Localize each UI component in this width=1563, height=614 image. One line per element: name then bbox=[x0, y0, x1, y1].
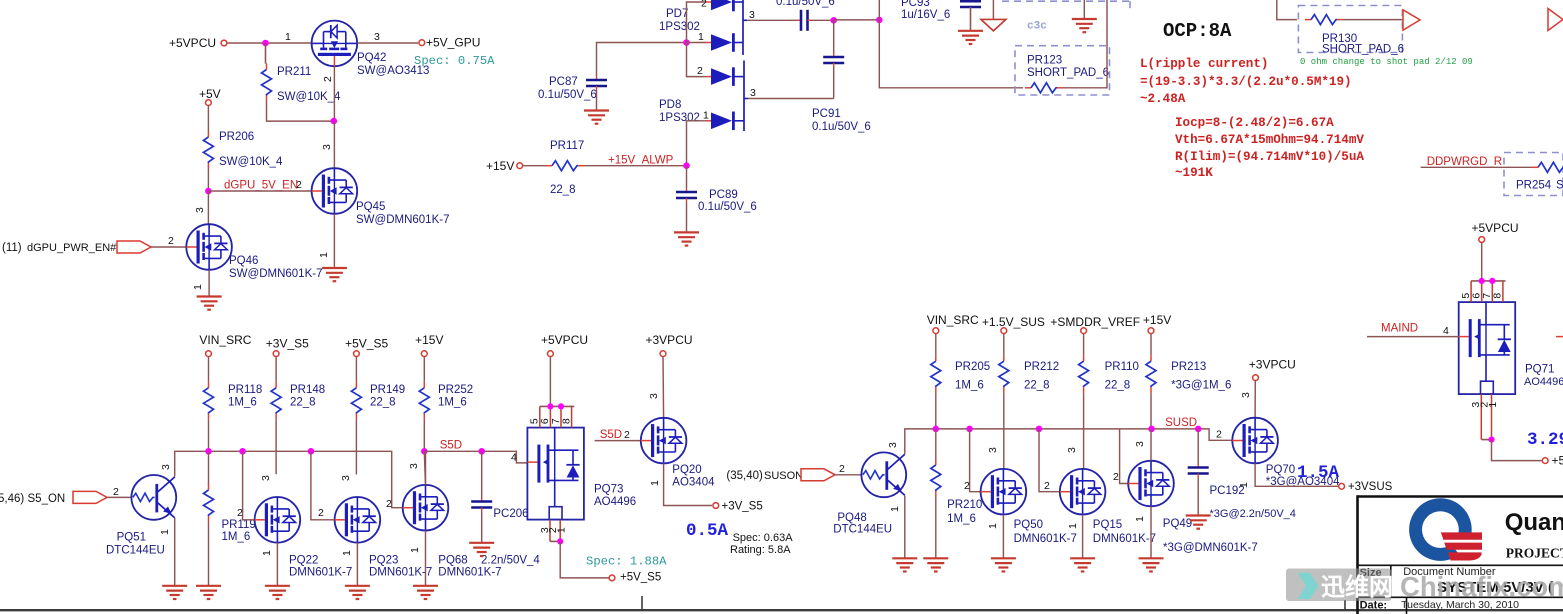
ground under PQ49 bbox=[1139, 557, 1164, 559]
border zone tick 2 bbox=[1344, 600, 1346, 610]
junction PR213/PQ49 drain bbox=[1150, 393, 1152, 429]
svg-text:+3VSUS: +3VSUS bbox=[1348, 481, 1393, 493]
svg-text:迅维网: 迅维网 bbox=[1321, 573, 1393, 601]
svg-text:PQ15: PQ15 bbox=[1093, 519, 1122, 531]
svg-text:PQ71: PQ71 bbox=[1525, 364, 1554, 376]
title block frame bbox=[1358, 495, 1563, 614]
ground under PR210 bbox=[923, 557, 948, 559]
power port +3VSUS (output) bbox=[1339, 483, 1345, 489]
wire PC91 bottom to PD8 pin3 rail bbox=[833, 67, 835, 98]
svg-text:3: 3 bbox=[1066, 447, 1078, 453]
svg-text:PC93: PC93 bbox=[901, 0, 930, 9]
svg-text:PQ50: PQ50 bbox=[1014, 519, 1043, 531]
wire PC206 drop bbox=[481, 451, 483, 497]
svg-text:PD7: PD7 bbox=[666, 8, 688, 20]
svg-text:*3G@1M_6: *3G@1M_6 bbox=[1171, 380, 1231, 392]
svg-text:SW@10K_4: SW@10K_4 bbox=[219, 156, 283, 168]
wire PC89 to ground bbox=[686, 202, 688, 232]
svg-text:0.5A: 0.5A bbox=[686, 521, 729, 541]
power port +5V_GPU bbox=[419, 40, 425, 46]
svg-text:Date:: Date: bbox=[1360, 600, 1388, 612]
svg-text:1: 1 bbox=[192, 284, 204, 290]
wire PR130 to off-page arrow bbox=[1343, 19, 1403, 21]
wire PQ46 source to ground bbox=[208, 270, 210, 297]
wire PQ48 emitter to ground bbox=[904, 496, 906, 559]
junction PR205/PR210 bbox=[935, 393, 937, 429]
ground under PQ68 bbox=[413, 585, 438, 587]
wire PQ22 source to ground bbox=[276, 543, 278, 586]
ground under PC87 bbox=[584, 109, 609, 111]
wire gate drop PQ15 bbox=[1039, 429, 1060, 492]
svg-text:1PS302: 1PS302 bbox=[659, 112, 700, 124]
wire dGPU_5V_EN node down to PQ46 drain bbox=[207, 191, 209, 224]
svg-text:PQ48: PQ48 bbox=[837, 512, 866, 524]
wire PQ49 source to ground bbox=[1150, 506, 1152, 558]
wire node to PC87 and PD7 bbox=[597, 43, 687, 77]
svg-text:2.2n/50V_4: 2.2n/50V_4 bbox=[481, 555, 540, 567]
svg-text:SUSON: SUSON bbox=[764, 470, 803, 482]
wire node B down to PR123 rail bbox=[879, 20, 1023, 88]
ground under PC93 bbox=[958, 30, 983, 32]
svg-text:22_8: 22_8 bbox=[1105, 380, 1131, 392]
wire +5V_GPU node down to PD8 pin 2 bbox=[687, 43, 707, 77]
wire PC192 drop bbox=[1197, 429, 1199, 464]
svg-text:DTC144EU: DTC144EU bbox=[106, 545, 165, 557]
diode PD7 lower (pin 1) bbox=[687, 42, 707, 44]
svg-text:Rating: 5.8A: Rating: 5.8A bbox=[730, 544, 791, 556]
svg-text:PROJECT: PROJECT bbox=[1506, 546, 1563, 561]
wire node B up (off sheet) bbox=[878, 0, 880, 20]
svg-text:+3VPCU: +3VPCU bbox=[646, 333, 693, 347]
svg-text:3: 3 bbox=[194, 207, 206, 213]
svg-text:PR118: PR118 bbox=[228, 384, 262, 396]
svg-text:PR212: PR212 bbox=[1024, 361, 1059, 373]
wire PD8 pin1 from +15V_ALWP node bbox=[687, 121, 707, 166]
svg-text:1u/16V_6: 1u/16V_6 bbox=[901, 9, 950, 21]
svg-text:AO4496: AO4496 bbox=[1524, 376, 1563, 388]
transistor PQ22 (DMN601K-7) bbox=[255, 497, 301, 543]
svg-text:22_8: 22_8 bbox=[550, 184, 576, 196]
transistor PQ42 (P-MOSFET SW@AO3413) bbox=[312, 21, 358, 67]
svg-text:2: 2 bbox=[624, 429, 630, 441]
svg-text:MAIND: MAIND bbox=[1381, 323, 1418, 335]
resistor PR148 (22_8) bbox=[275, 357, 277, 382]
diode PD8 upper (pin 2) bbox=[706, 76, 711, 78]
dashed box PR254 bbox=[1504, 153, 1563, 196]
wire dGPU_5V_EN node to PQ45 gate bbox=[208, 190, 311, 192]
wire gate drop PQ50 bbox=[970, 429, 981, 492]
transistor PQ46 (SW@DMN601K-7) bbox=[186, 224, 232, 270]
stub at right edge (MAIND row) bbox=[1556, 336, 1563, 338]
watermark box bbox=[1286, 569, 1392, 602]
capacitor PC192 (*3G@2.2n/50V_4) bbox=[1197, 464, 1199, 468]
svg-text:1M_6: 1M_6 bbox=[438, 397, 467, 409]
svg-text:+15V: +15V bbox=[1143, 313, 1171, 327]
junction PQ15 gate bbox=[1036, 426, 1043, 433]
svg-text:1M_6: 1M_6 bbox=[947, 513, 976, 525]
svg-text:22_8: 22_8 bbox=[370, 397, 396, 409]
svg-text:~191K: ~191K bbox=[1175, 166, 1213, 180]
svg-text:SW@10K_4: SW@10K_4 bbox=[277, 91, 341, 103]
off-page arrow at sheet top right bbox=[1548, 9, 1563, 31]
svg-text:SHORT_PAD_6: SHORT_PAD_6 bbox=[1027, 67, 1109, 79]
svg-text:1PS302: 1PS302 bbox=[659, 21, 700, 33]
wire PR252 to S5D junction bbox=[423, 420, 425, 452]
junction PQ50 gate bbox=[966, 426, 973, 433]
capacitor PC89 (0.1u/50V_6) bbox=[686, 188, 688, 192]
ground under PQ46 bbox=[197, 295, 222, 297]
svg-text:DMN601K-7: DMN601K-7 bbox=[289, 567, 352, 579]
svg-text:1: 1 bbox=[703, 110, 709, 122]
wire gate drop PQ23 bbox=[311, 451, 335, 520]
svg-text:PR110: PR110 bbox=[1105, 361, 1139, 373]
resistor PR252 (1M_6) bbox=[423, 357, 425, 382]
svg-text:1: 1 bbox=[987, 523, 999, 529]
transistor PQ73 (AO4496 block) bbox=[527, 403, 584, 544]
transistor PQ48 (DTC144EU) bbox=[861, 452, 906, 497]
wire PQ51 collector to bus bbox=[174, 475, 176, 477]
resistor PR110 (22_8) bbox=[1083, 334, 1085, 356]
gate bus wire (S5_ON driver) bbox=[175, 451, 403, 507]
wire flag to PQ51 base bbox=[107, 496, 131, 498]
off-page arrow (right) bbox=[1403, 10, 1420, 30]
svg-text:1: 1 bbox=[649, 480, 661, 486]
svg-text:8: 8 bbox=[560, 418, 572, 424]
dashed box PR123 bbox=[1015, 46, 1110, 95]
svg-text:0 ohm change to shot pad 2/12: 0 ohm change to shot pad 2/12 09 bbox=[1300, 57, 1473, 67]
svg-text:PQ23: PQ23 bbox=[369, 555, 398, 567]
svg-text:VIN_SRC: VIN_SRC bbox=[927, 313, 979, 327]
wire PR123 to corner up bbox=[1063, 0, 1107, 88]
svg-text:1: 1 bbox=[341, 550, 353, 556]
svg-text:1: 1 bbox=[159, 529, 171, 535]
svg-text:PQ42: PQ42 bbox=[357, 52, 386, 64]
svg-text:+15V: +15V bbox=[415, 333, 443, 347]
junction PC192 bbox=[1195, 426, 1202, 433]
wire +15V to PR117 bbox=[523, 165, 546, 167]
svg-text:2: 2 bbox=[1216, 429, 1222, 441]
svg-text:PQ45: PQ45 bbox=[356, 201, 385, 213]
svg-text:2: 2 bbox=[168, 235, 174, 247]
svg-text:3: 3 bbox=[160, 464, 172, 470]
svg-text:+3VPCU: +3VPCU bbox=[1249, 358, 1296, 372]
svg-text:2: 2 bbox=[1044, 480, 1050, 492]
svg-text:3: 3 bbox=[1240, 392, 1252, 398]
transistor PQ15 (DMN601K-7) bbox=[1060, 469, 1106, 515]
svg-text:SHORT_PAD_6: SHORT_PAD_6 bbox=[1322, 44, 1404, 56]
svg-text:2: 2 bbox=[1113, 471, 1119, 483]
ground triangle bbox=[981, 19, 1006, 31]
svg-text:22_8: 22_8 bbox=[1024, 380, 1050, 392]
resistor PR149 (22_8) bbox=[355, 357, 357, 382]
svg-text:1: 1 bbox=[1067, 523, 1079, 529]
svg-text:dGPU_5V_EN: dGPU_5V_EN bbox=[224, 180, 298, 192]
svg-text:1.5A: 1.5A bbox=[1297, 463, 1340, 483]
svg-text:2: 2 bbox=[697, 65, 703, 77]
input flag S5_ON bbox=[73, 491, 107, 503]
svg-text:+5VPCU: +5VPCU bbox=[1472, 221, 1519, 235]
svg-text:3: 3 bbox=[750, 87, 756, 99]
svg-text:1: 1 bbox=[409, 547, 421, 553]
svg-text:Quanta: Quanta bbox=[1505, 509, 1563, 536]
ground under PQ45 bbox=[322, 267, 347, 269]
wire PQ68 source to ground bbox=[425, 531, 427, 586]
svg-text:SUSD: SUSD bbox=[1165, 417, 1197, 429]
wire PQ42 pin3 to +5V_GPU bbox=[357, 42, 418, 44]
svg-text:+3V_S5: +3V_S5 bbox=[266, 337, 309, 351]
wire PQ15 source to ground bbox=[1082, 515, 1084, 559]
capacitor 0.1u/50V_6 (series, top rail) bbox=[797, 19, 801, 21]
svg-text:PR123: PR123 bbox=[1027, 55, 1062, 67]
svg-text:0.1u/50V_6: 0.1u/50V_6 bbox=[698, 201, 757, 213]
resistor PR205 (1M_6) bbox=[935, 334, 937, 356]
svg-text:SW@DMN601K-7: SW@DMN601K-7 bbox=[356, 214, 449, 226]
svg-text:1M_6: 1M_6 bbox=[222, 531, 251, 543]
wire PQ49 drain to SUSD bbox=[1150, 429, 1152, 461]
svg-text:+5V: +5V bbox=[199, 87, 221, 101]
wire PR210 to ground bbox=[935, 497, 937, 558]
svg-text:1: 1 bbox=[1238, 482, 1250, 488]
svg-text:2: 2 bbox=[296, 179, 302, 191]
wire PC87 to ground bbox=[596, 90, 598, 111]
SUSD gate bus wire bbox=[905, 429, 1233, 451]
svg-text:=(19-3.3)*3.3/(2.2u*0.5M*19): =(19-3.3)*3.3/(2.2u*0.5M*19) bbox=[1140, 75, 1352, 89]
resistor PR117 (22_8) bbox=[546, 165, 552, 167]
svg-text:PQ73: PQ73 bbox=[594, 484, 623, 496]
svg-text:PQ70: PQ70 bbox=[1266, 464, 1295, 476]
wire gate drop PQ22 bbox=[243, 451, 255, 520]
wire PQ71 bottom pins to +5VSUS bbox=[1492, 440, 1542, 461]
svg-text:+1.5V_SUS: +1.5V_SUS bbox=[982, 315, 1045, 329]
svg-text:PD8: PD8 bbox=[659, 99, 681, 111]
svg-text:1: 1 bbox=[1487, 402, 1499, 408]
svg-text:+5V_GPU: +5V_GPU bbox=[426, 36, 480, 50]
svg-text:2: 2 bbox=[386, 498, 392, 510]
wire PC206 to ground bbox=[481, 512, 483, 543]
svg-text:4: 4 bbox=[1443, 325, 1449, 337]
svg-text:(11): (11) bbox=[2, 242, 22, 254]
resistor PR130 (SHORT_PAD_6) bbox=[1305, 19, 1311, 21]
svg-text:+5V_S5: +5V_S5 bbox=[345, 337, 388, 351]
junction PR118/gate bus bbox=[208, 420, 210, 452]
junction PQ22 gate bbox=[239, 448, 246, 455]
wire PQ51 emitter to ground bbox=[174, 518, 176, 586]
wire PQ50 source to ground bbox=[1002, 515, 1004, 559]
resistor PR118 (1M_6) bbox=[208, 357, 210, 382]
transistor PQ20 (AO3404) bbox=[641, 418, 687, 464]
wire PR211 to node below PQ42 bbox=[267, 102, 334, 122]
resistor PR123 (SHORT_PAD_6) bbox=[1025, 87, 1031, 89]
transistor PQ51 (DTC144EU) bbox=[131, 475, 176, 520]
svg-text:1M_6: 1M_6 bbox=[228, 397, 257, 409]
svg-text:PQ20: PQ20 bbox=[672, 464, 701, 476]
svg-text:+5V_S5: +5V_S5 bbox=[620, 572, 661, 584]
svg-text:0.1u/50V_6: 0.1u/50V_6 bbox=[812, 121, 871, 133]
svg-text:S5_ON: S5_ON bbox=[28, 493, 66, 505]
watermark chevron bbox=[1298, 573, 1319, 599]
svg-text:+15V: +15V bbox=[486, 159, 514, 173]
resistor PR213 (*3G@1M_6) bbox=[1150, 334, 1152, 356]
svg-text:Spec: 0.75A: Spec: 0.75A bbox=[414, 54, 495, 68]
diode PD7 upper (pin 2) bbox=[706, 1, 711, 3]
svg-text:+5VSUS: +5VSUS bbox=[1552, 454, 1563, 468]
svg-text:+3V_S5: +3V_S5 bbox=[722, 501, 763, 513]
ground under PQ48 bbox=[892, 557, 917, 559]
sheet bottom border bbox=[0, 609, 1563, 611]
svg-text:1: 1 bbox=[698, 31, 704, 43]
wire junction to PR211 bbox=[265, 43, 267, 64]
svg-text:DMN601K-7: DMN601K-7 bbox=[1093, 533, 1156, 545]
power port +3V_S5 (output) bbox=[713, 503, 719, 509]
svg-text:3: 3 bbox=[987, 447, 999, 453]
svg-text:DMN601K-7: DMN601K-7 bbox=[1014, 533, 1077, 545]
svg-text:PR205: PR205 bbox=[955, 361, 990, 373]
common cathode PD7 bbox=[742, 0, 744, 55]
svg-text:AO3404: AO3404 bbox=[672, 477, 715, 489]
svg-text:VIN_SRC: VIN_SRC bbox=[199, 333, 251, 347]
junction PC206 bbox=[478, 448, 485, 455]
svg-text:2: 2 bbox=[964, 480, 970, 492]
wire to PD7 pin 2 bbox=[687, 2, 707, 43]
svg-text:PR254: PR254 bbox=[1516, 180, 1552, 192]
svg-text:22_8: 22_8 bbox=[290, 397, 316, 409]
svg-text:S5D: S5D bbox=[600, 429, 622, 441]
junction S5D bbox=[421, 448, 428, 455]
svg-text:PC87: PC87 bbox=[549, 76, 578, 88]
wire PR212 to PQ50 drain (crossover) bbox=[1003, 393, 1005, 469]
capacitor PC206 (2.2n/50V_4) bbox=[481, 498, 483, 502]
wire MAIND to PQ71 pin 4 bbox=[1367, 336, 1459, 338]
common cathode PD8 bbox=[743, 61, 745, 132]
wire PR149 to PQ23 drain (crossover) bbox=[355, 420, 357, 475]
wire flag to PQ48 base bbox=[835, 474, 861, 476]
wire node to PC89 bbox=[686, 166, 688, 188]
svg-text:8: 8 bbox=[1492, 293, 1504, 299]
svg-text:SW@DMN601K-7: SW@DMN601K-7 bbox=[229, 268, 322, 280]
resistor PR212 (22_8) bbox=[1003, 334, 1005, 356]
dashed box PR130 bbox=[1298, 6, 1402, 53]
ground under PQ51 bbox=[162, 585, 187, 587]
wire PQ42 pin2 down to junction bbox=[333, 66, 335, 121]
svg-text:*3G@2.2n/50V_4: *3G@2.2n/50V_4 bbox=[1210, 508, 1296, 520]
capacitor PC93 (1u/16V_6) bbox=[969, 0, 972, 1]
ground right of c3c bbox=[1072, 18, 1097, 20]
svg-text:S5D: S5D bbox=[440, 440, 462, 452]
wire +5V to PR206 bbox=[207, 106, 209, 132]
wire PQ23 source to ground bbox=[356, 543, 358, 586]
diode PD8 lower (pin 1) bbox=[706, 120, 711, 122]
wire into PR130 bbox=[1277, 0, 1297, 20]
wire PQ73 bottom pins to +5V_S5 bbox=[560, 541, 608, 578]
transistor PQ70 (*3G@AO3404) bbox=[1232, 418, 1278, 464]
svg-text:PC206: PC206 bbox=[493, 508, 528, 520]
svg-text:PR149: PR149 bbox=[370, 384, 405, 396]
ground under PR119 bbox=[196, 585, 221, 587]
wire +5VPCU to PQ42 pin 1 bbox=[227, 42, 312, 44]
svg-text:+SMDDR_VREF: +SMDDR_VREF bbox=[1050, 315, 1140, 329]
svg-text:PQ51: PQ51 bbox=[117, 532, 146, 544]
svg-text:3: 3 bbox=[321, 144, 333, 150]
svg-text:DMN601K-7: DMN601K-7 bbox=[369, 567, 432, 579]
svg-text:PC91: PC91 bbox=[812, 108, 841, 120]
svg-text:Vth=6.67A*15mOhm=94.714mV: Vth=6.67A*15mOhm=94.714mV bbox=[1175, 133, 1364, 147]
transistor PQ71 (AO4496 block) bbox=[1459, 278, 1516, 443]
resistor PR206 (SW@10K_4) bbox=[207, 131, 209, 137]
wire PD8 pin3 to PC91 bottom bbox=[748, 98, 834, 100]
wire +5VPCU to PQ73 pins 5-8 bbox=[549, 357, 551, 407]
svg-text:~2.48A: ~2.48A bbox=[1140, 92, 1186, 106]
wire gate drop PQ49 bbox=[1120, 429, 1129, 484]
capacitor PC87 (0.1u/50V_6) bbox=[596, 76, 598, 80]
svg-text:1: 1 bbox=[285, 31, 291, 43]
transistor PQ23 (DMN601K-7) bbox=[335, 497, 381, 543]
wire PQ70 source to +3VSUS bbox=[1255, 463, 1338, 486]
wire series cap to junction A bbox=[812, 19, 834, 21]
wire S5D junction to PQ68 drain bbox=[424, 451, 425, 485]
wire PQ45 source to ground bbox=[333, 214, 335, 268]
transistor PQ50 (DMN601K-7) bbox=[981, 469, 1027, 515]
wire PQ48 collector to bus bbox=[904, 451, 906, 454]
input flag SUSON bbox=[801, 469, 835, 481]
resistor PR119 (1M_6) bbox=[208, 451, 210, 485]
transistor PQ49 (*3G@DMN601K-7) bbox=[1128, 461, 1174, 507]
ground under PQ15 bbox=[1070, 557, 1095, 559]
svg-text:PR119: PR119 bbox=[222, 519, 256, 531]
svg-text:PQ49: PQ49 bbox=[1163, 518, 1192, 530]
wire PR117 to +15V_ALWP node bbox=[584, 165, 687, 167]
svg-text:OCP:8A: OCP:8A bbox=[1163, 20, 1232, 42]
svg-text:PQ68: PQ68 bbox=[438, 555, 467, 567]
svg-text:3: 3 bbox=[887, 442, 899, 448]
svg-text:*3G@DMN601K-7: *3G@DMN601K-7 bbox=[1163, 542, 1258, 554]
ground under PQ23 bbox=[345, 585, 370, 587]
wire +5VPCU to PQ71 pins 5-8 bbox=[1481, 242, 1483, 281]
resistor PR254 bbox=[1532, 166, 1538, 168]
svg-text:4: 4 bbox=[511, 452, 517, 464]
svg-text:L(ripple current): L(ripple current) bbox=[1140, 57, 1268, 71]
svg-text:c3c: c3c bbox=[1027, 21, 1047, 33]
svg-text:1: 1 bbox=[1134, 516, 1146, 522]
svg-text:2: 2 bbox=[318, 507, 324, 519]
border zone tick 1 bbox=[641, 596, 643, 610]
svg-text:3: 3 bbox=[648, 393, 660, 399]
ground under PC192 bbox=[1186, 514, 1211, 516]
wire to analog ground triangle bbox=[992, 0, 994, 19]
svg-text:0.1u/50V_6: 0.1u/50V_6 bbox=[776, 0, 835, 8]
ground under PQ22 bbox=[265, 585, 290, 587]
svg-text:5,46): 5,46) bbox=[0, 493, 24, 505]
svg-text:R(Ilim)=(94.714mV*10)/5uA: R(Ilim)=(94.714mV*10)/5uA bbox=[1175, 150, 1364, 164]
wire PC192 to ground bbox=[1197, 478, 1199, 516]
resistor PR211 (SW@10K_4) bbox=[266, 64, 268, 70]
svg-text:DDPWRGD_R: DDPWRGD_R bbox=[1427, 156, 1502, 168]
resistor PR210 (1M_6) bbox=[935, 429, 937, 460]
dashed region c3c bbox=[1002, 0, 1130, 2]
wire PR119 to ground bbox=[208, 522, 210, 586]
svg-text:Iocp=8-(2.48/2)=6.67A: Iocp=8-(2.48/2)=6.67A bbox=[1175, 116, 1334, 130]
wire junction down to PQ45 drain bbox=[333, 121, 335, 168]
wire PD7 pin3 to series cap bbox=[747, 19, 797, 21]
svg-text:1: 1 bbox=[261, 550, 273, 556]
wire PQ20 source to +3V_S5 bbox=[664, 463, 712, 505]
svg-text:1: 1 bbox=[556, 527, 568, 533]
svg-text:PR211: PR211 bbox=[277, 66, 311, 78]
wire PR110 to PQ15 drain (crossover) bbox=[1083, 393, 1085, 469]
svg-text:PR117: PR117 bbox=[550, 140, 584, 152]
svg-text:(35,40): (35,40) bbox=[726, 470, 763, 482]
ground under PC206 bbox=[469, 542, 494, 544]
svg-text:dGPU_PWR_EN#: dGPU_PWR_EN# bbox=[27, 242, 117, 254]
